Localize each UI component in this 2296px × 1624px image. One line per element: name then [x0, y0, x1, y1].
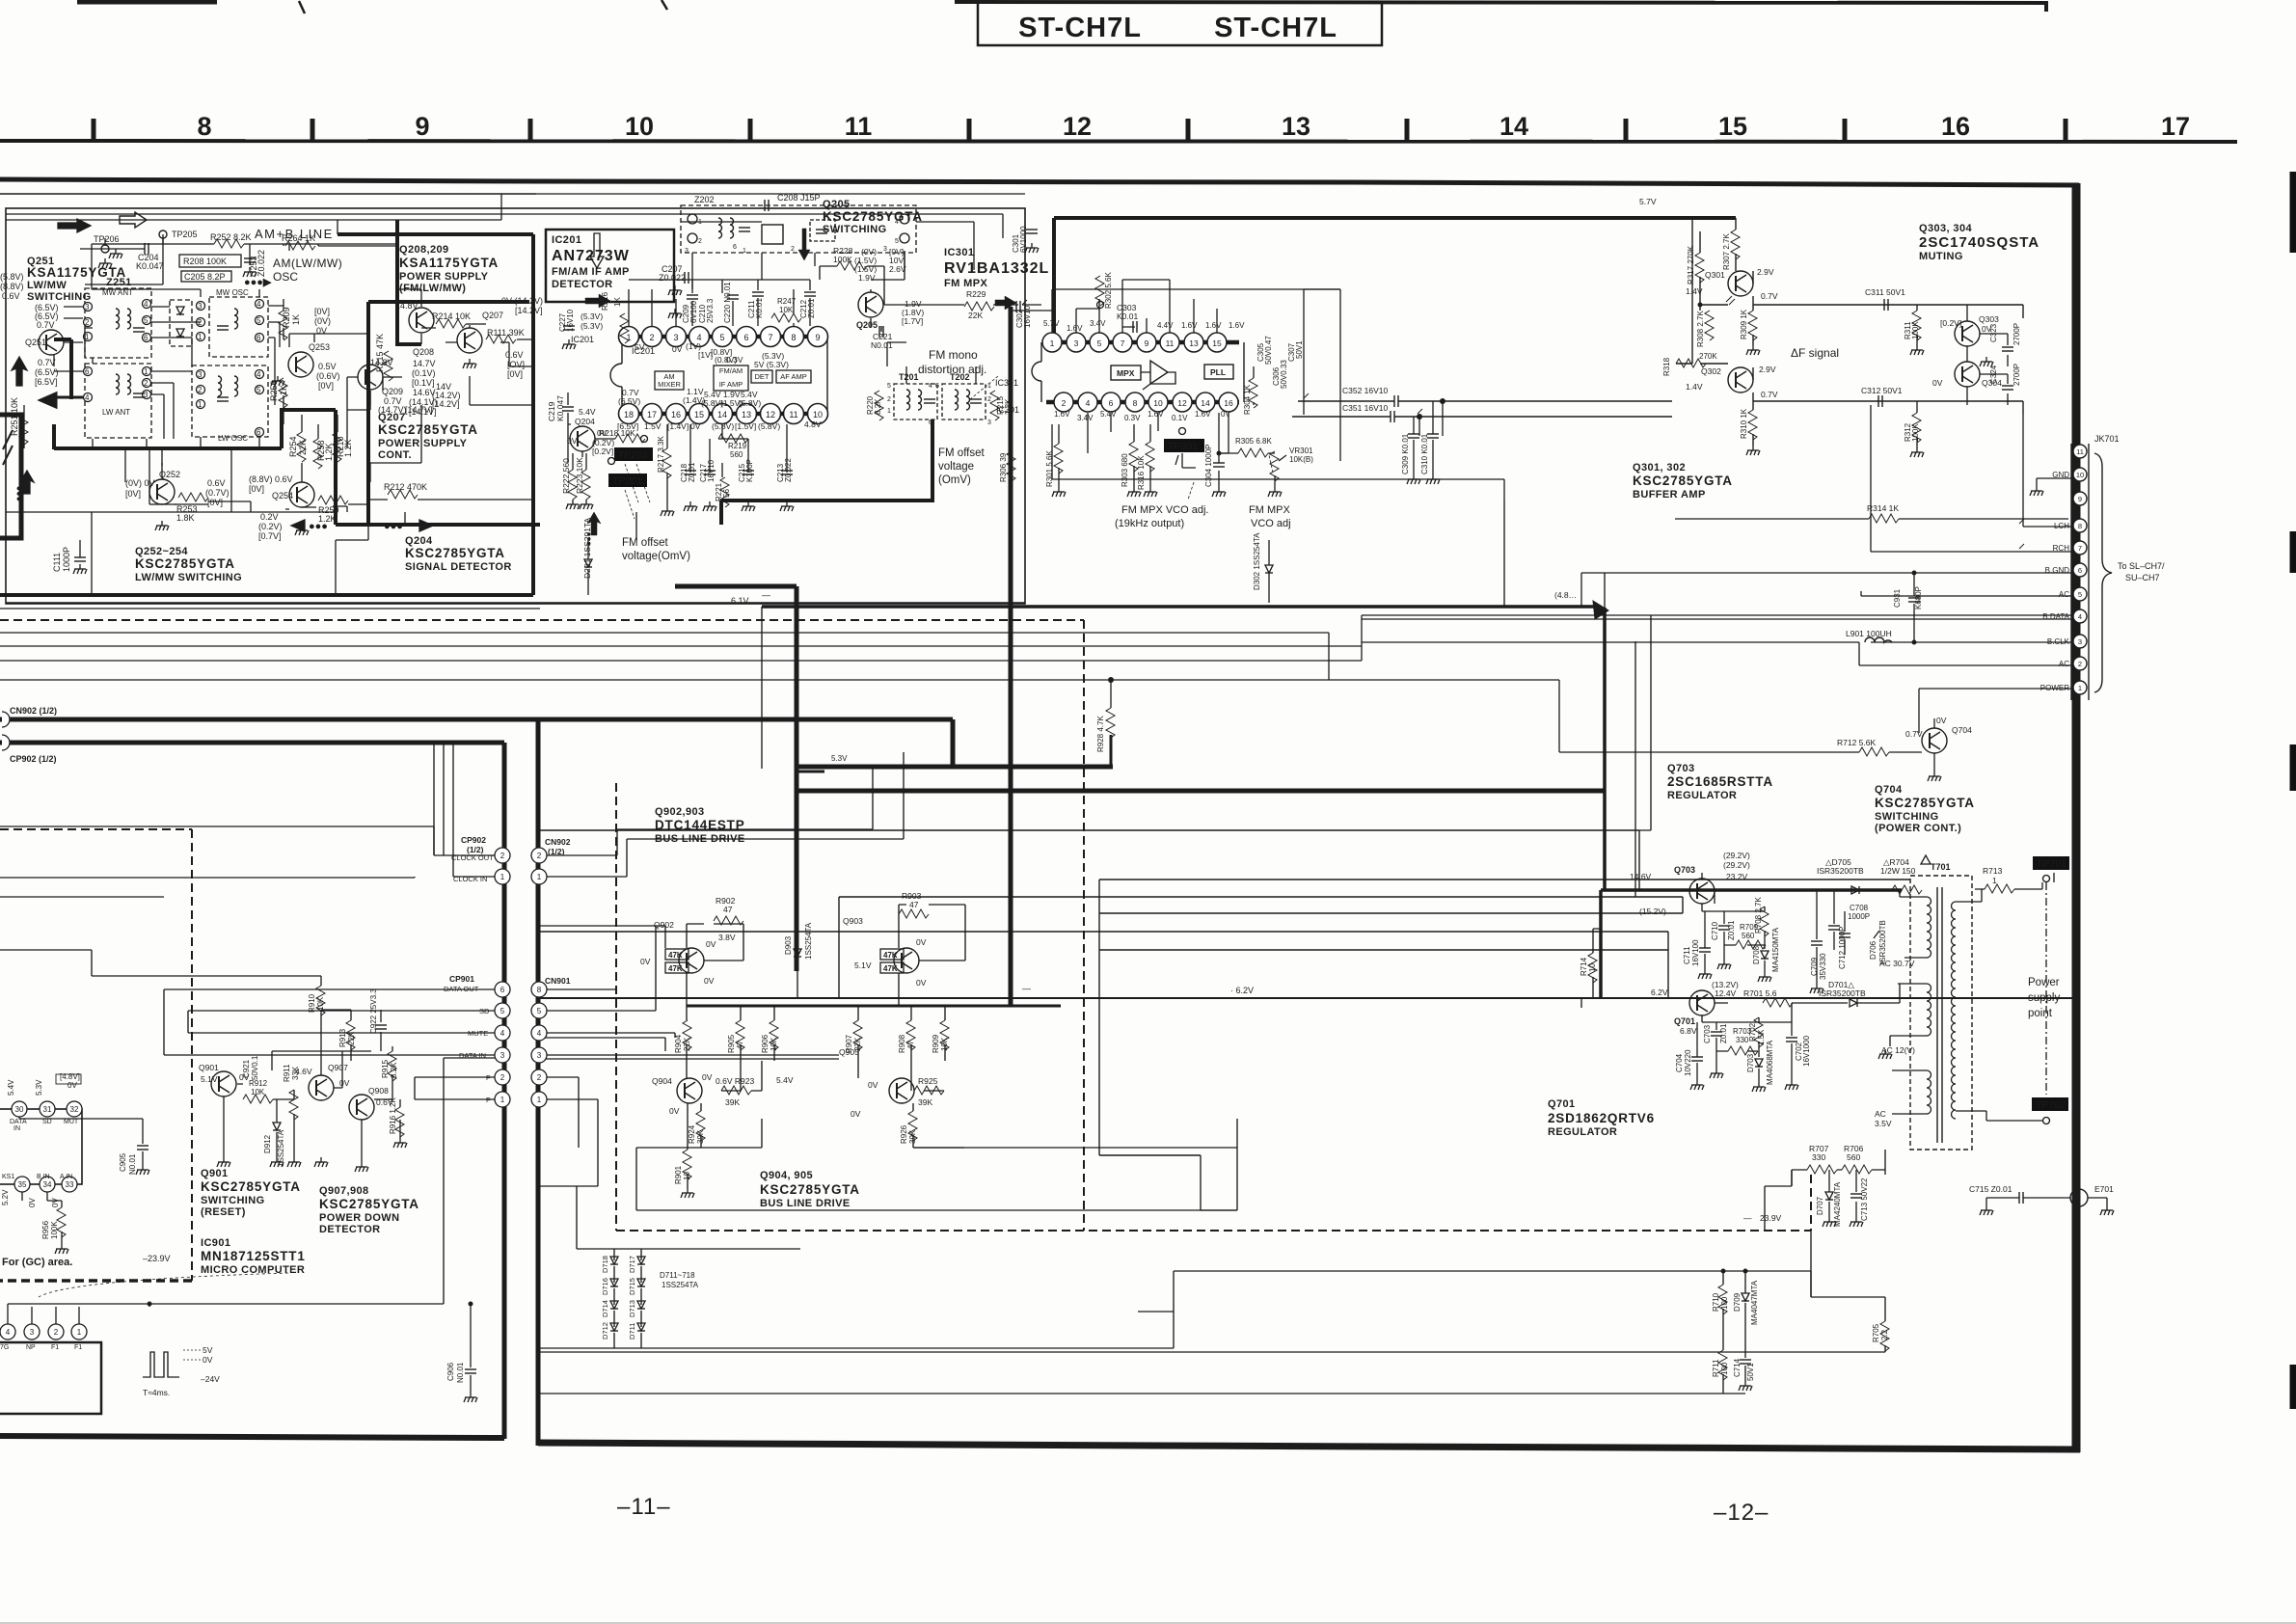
svg-text:—: — [762, 590, 770, 600]
svg-text:F1: F1 [74, 1344, 82, 1351]
resistor R925 [918, 1076, 938, 1107]
svg-text:R222 560: R222 560 [561, 458, 571, 494]
svg-text:7: 7 [1121, 338, 1125, 348]
svg-text:TP701: TP701 [2037, 858, 2066, 870]
svg-text:2SC1685RSTTA: 2SC1685RSTTA [1667, 774, 1773, 789]
svg-text:Q254: Q254 [272, 491, 293, 501]
svg-text:47K: 47K [883, 964, 898, 973]
svg-text:3: 3 [500, 1051, 505, 1060]
resistor R258 [313, 439, 322, 469]
svg-text:R305 6.8K: R305 6.8K [1235, 437, 1272, 446]
Z251 coils [116, 309, 120, 329]
svg-text:TP206: TP206 [94, 234, 120, 244]
svg-text:[4.8V]: [4.8V] [60, 1072, 80, 1081]
svg-text:6V100: 6V100 [689, 300, 698, 323]
below IC301 resistors [1054, 444, 1063, 474]
svg-text:4: 4 [1086, 398, 1091, 408]
label AM+B LINE [255, 227, 342, 284]
svg-text:(29.2V): (29.2V) [1723, 860, 1750, 870]
svg-text:R911: R911 [283, 1064, 291, 1082]
svg-text:C906: C906 [446, 1362, 455, 1381]
svg-text:10: 10 [625, 112, 654, 141]
svg-text:DATA: DATA [10, 1119, 27, 1125]
svg-text:0.3V: 0.3V [726, 355, 743, 365]
svg-text:POWER DOWN: POWER DOWN [319, 1212, 399, 1224]
resistor R902 [716, 896, 736, 914]
svg-text:2: 2 [698, 238, 702, 245]
capacitor C207 [659, 264, 686, 283]
svg-text:OSC: OSC [273, 270, 298, 284]
svg-text:0V (14.2V): 0V (14.2V) [501, 296, 543, 306]
svg-text:3: 3 [85, 303, 90, 311]
svg-text:Q209: Q209 [382, 387, 403, 396]
wires IC301 bottom to FM adj [1052, 413, 1504, 501]
IC301 body [1046, 342, 1239, 402]
bus drive wires [687, 1005, 1061, 1008]
svg-text:6: 6 [500, 986, 505, 994]
svg-text:D714: D714 [601, 1300, 609, 1317]
svg-text:R302 5.6K: R302 5.6K [1104, 272, 1113, 309]
svg-text:D717: D717 [628, 1256, 636, 1273]
TP202 badge [614, 447, 653, 461]
svg-text:CN901: CN901 [545, 976, 571, 986]
svg-text:4: 4 [500, 1029, 505, 1038]
svg-text:1: 1 [85, 333, 90, 341]
svg-text:IC301: IC301 [996, 405, 1019, 415]
svg-text:C111: C111 [52, 553, 62, 572]
svg-text:8: 8 [2078, 522, 2082, 530]
resistor R214 [436, 319, 466, 328]
svg-text:N0.01: N0.01 [128, 1153, 137, 1175]
svg-text:0V: 0V [704, 976, 715, 986]
resistor R256 [279, 378, 287, 408]
wire 5.3V rail thick [797, 771, 824, 773]
svg-text:R217 3.3K: R217 3.3K [657, 436, 665, 473]
svg-text:3: 3 [198, 370, 203, 379]
resistor R209 [279, 311, 287, 340]
svg-text:–11–: –11– [617, 1494, 671, 1520]
diode D912 [273, 1123, 281, 1130]
svg-text:IC301: IC301 [995, 378, 1018, 388]
label 4.8V [1554, 590, 1577, 600]
TP702 [2032, 1097, 2068, 1111]
svg-text:(5.8V): (5.8V) [739, 398, 761, 408]
svg-text:K0.01: K0.01 [1117, 311, 1138, 321]
svg-text:1: 1 [500, 1096, 505, 1104]
svg-text:5.2V: 5.2V [1, 1189, 10, 1205]
wires buffer [1676, 218, 1753, 446]
svg-text:LW OSC: LW OSC [218, 434, 248, 443]
long wires [0, 615, 1837, 752]
big arrows [798, 229, 810, 260]
svg-text:1.6V: 1.6V [1181, 321, 1198, 330]
svg-text:[0V]: [0V] [318, 381, 334, 391]
C309 C310 [1401, 433, 1429, 474]
transistor Q252 [149, 479, 175, 504]
svg-text:6: 6 [1109, 398, 1114, 408]
resistor R310 [1748, 410, 1757, 440]
svg-text:Q301, 302: Q301, 302 [1633, 462, 1686, 474]
svg-text:IC901: IC901 [201, 1237, 230, 1249]
svg-text:JK701: JK701 [2094, 434, 2120, 444]
svg-text:Q701: Q701 [1674, 1016, 1695, 1026]
svg-text:(6.5V): (6.5V) [618, 396, 640, 406]
svg-text:(6.5V): (6.5V) [35, 367, 59, 377]
svg-text:1/2W 150: 1/2W 150 [1880, 866, 1916, 876]
svg-text:8: 8 [791, 333, 796, 342]
svg-text:560: 560 [730, 450, 743, 459]
transistor Q209 [358, 365, 383, 390]
svg-text:C710: C710 [1711, 921, 1719, 940]
inductor L901 [1846, 629, 1892, 638]
IC301 pins [1042, 333, 1238, 412]
transistor Q254 [289, 482, 314, 507]
svg-text:1: 1 [1050, 338, 1055, 348]
wire [0, 193, 536, 195]
svg-text:Power: Power [2028, 977, 2060, 988]
svg-text:NP: NP [26, 1344, 36, 1351]
svg-text:50V1: 50V1 [1746, 1363, 1755, 1381]
svg-text:35V330: 35V330 [1819, 953, 1827, 980]
svg-text:10: 10 [2076, 471, 2084, 479]
svg-text:D709: D709 [1733, 1292, 1742, 1312]
svg-text:Q704: Q704 [1952, 725, 1972, 735]
resistor R210 [333, 432, 341, 462]
svg-text:16V1000: 16V1000 [1802, 1035, 1811, 1067]
svg-text:1.6V: 1.6V [1148, 410, 1164, 419]
svg-text:10: 10 [1153, 398, 1163, 408]
svg-text:34: 34 [43, 1180, 52, 1189]
svg-text:35: 35 [18, 1180, 27, 1189]
svg-text:Q901: Q901 [201, 1168, 229, 1179]
svg-text:50V1: 50V1 [1295, 340, 1304, 359]
svg-text:R915: R915 [381, 1059, 390, 1078]
svg-text:Z0.01: Z0.01 [1719, 1023, 1728, 1043]
svg-text:2: 2 [85, 318, 90, 327]
svg-text:47: 47 [909, 900, 919, 909]
svg-text:10: 10 [813, 410, 823, 420]
svg-text:R308 2.7K: R308 2.7K [1696, 311, 1705, 347]
svg-text:0.7V: 0.7V [38, 358, 56, 367]
svg-text:0.6V: 0.6V [2, 291, 20, 301]
svg-text:CP901: CP901 [449, 974, 474, 984]
svg-text:IC201: IC201 [552, 234, 581, 246]
svg-text:5.4V: 5.4V [579, 407, 596, 417]
svg-text:C921: C921 [242, 1059, 251, 1078]
svg-text:0.7V: 0.7V [1905, 729, 1923, 739]
svg-text:1K: 1K [279, 385, 288, 395]
wires power details [1581, 890, 1900, 1297]
svg-text:SWITCHING: SWITCHING [27, 291, 92, 303]
capacitor C323 C324 [1989, 323, 2021, 386]
svg-text:6.1V: 6.1V [731, 596, 749, 606]
svg-text:1.2K: 1.2K [318, 514, 337, 524]
svg-text:D912: D912 [263, 1134, 272, 1153]
svg-text:AM(LW/MW): AM(LW/MW) [273, 257, 342, 270]
svg-text:1: 1 [537, 873, 542, 881]
resistor R714 [1588, 953, 1597, 983]
label dF signal [1791, 346, 1839, 360]
svg-text:R256: R256 [269, 380, 279, 401]
svg-text:1: 1 [743, 248, 746, 255]
resistor R229 [964, 302, 994, 311]
svg-text:31: 31 [43, 1105, 52, 1114]
extra stepped wires right of CN column [617, 752, 904, 839]
resistor R252 [214, 239, 244, 248]
svg-text:R901: R901 [674, 1165, 683, 1184]
svg-text:R212 470K: R212 470K [384, 482, 427, 492]
svg-text:T201: T201 [899, 372, 919, 382]
transistor Q208 [409, 308, 434, 333]
top edge partial line [955, 2, 2048, 3]
svg-text:2: 2 [2078, 660, 2082, 668]
svg-text:10K: 10K [251, 1088, 265, 1096]
wires top bus [6, 194, 1025, 238]
labels CN902/CP902 left edge [10, 706, 57, 764]
svg-text:KSC2785YGTA: KSC2785YGTA [405, 546, 505, 560]
svg-text:1: 1 [198, 333, 203, 341]
svg-text:R306 39: R306 39 [999, 452, 1008, 482]
resistor R312 [1912, 413, 1921, 443]
svg-text:1: 1 [77, 1328, 82, 1337]
R707 R706 [1809, 1144, 1864, 1162]
svg-text:SWITCHING: SWITCHING [201, 1195, 265, 1206]
D706 C708 C709 C712 [1810, 904, 1887, 980]
svg-text:(5.3V): (5.3V) [581, 321, 603, 331]
svg-text:1.2K: 1.2K [324, 443, 334, 461]
svg-text:13: 13 [1189, 338, 1199, 348]
svg-text:3.4V: 3.4V [1090, 319, 1106, 328]
svg-text:6.8V: 6.8V [1680, 1026, 1697, 1036]
open arrow on wire [120, 212, 147, 228]
transformers T201 T202 [894, 384, 986, 420]
svg-text:DTC144ESTP: DTC144ESTP [655, 818, 745, 832]
svg-text:0.7V: 0.7V [1761, 291, 1778, 301]
svg-text:FM MPX VCO adj.: FM MPX VCO adj. [1121, 504, 1208, 516]
svg-text:R316 10K: R316 10K [1137, 455, 1146, 490]
svg-text:47: 47 [723, 905, 733, 914]
svg-text:C931: C931 [1893, 588, 1902, 608]
svg-text:4: 4 [2078, 612, 2082, 621]
svg-text:1SS254TA: 1SS254TA [662, 1281, 699, 1289]
svg-text:4.8V: 4.8V [804, 420, 822, 429]
svg-text:14.7V: 14.7V [413, 359, 436, 368]
svg-text:1: 1 [144, 367, 149, 376]
svg-text:(0.1V): (0.1V) [412, 368, 436, 378]
wires Z251 to Q251 [54, 307, 83, 371]
svg-text:C703: C703 [1703, 1024, 1712, 1043]
transistor Q704 [1922, 728, 1947, 753]
C305 C306 C307 [1256, 336, 1304, 389]
capacitor C311 [1865, 287, 1905, 297]
resistor R314 [1867, 503, 1899, 513]
svg-text:R913: R913 [338, 1028, 347, 1047]
svg-text:23.2V: 23.2V [1726, 872, 1748, 881]
transistor Q303 [1955, 321, 1980, 346]
label Q907,908 group [319, 1185, 419, 1235]
svg-text:(8.8V): (8.8V) [0, 282, 24, 291]
svg-text:5: 5 [257, 316, 261, 325]
svg-text:T≈4ms.: T≈4ms. [143, 1388, 170, 1397]
svg-text:Q204: Q204 [575, 417, 595, 426]
svg-text:ST-CH7L: ST-CH7L [1018, 13, 1142, 43]
label For GC area [2, 1254, 171, 1268]
svg-text:D302 1SS254TA: D302 1SS254TA [1253, 532, 1261, 590]
R302 C301 [1095, 276, 1104, 306]
svg-text:2: 2 [144, 379, 149, 388]
svg-text:100K: 100K [1911, 321, 1920, 339]
svg-text:●●●▶: ●●●▶ [244, 277, 272, 288]
caps inside Z251 [133, 328, 145, 332]
svg-text:D711~718: D711~718 [660, 1271, 695, 1280]
svg-text:14.8V: 14.8V [395, 301, 419, 311]
svg-text:1: 1 [2078, 684, 2082, 692]
svg-text:1SS254TA: 1SS254TA [277, 1129, 285, 1167]
right page-edge crop marks [2290, 172, 2296, 1409]
C703 cluster [1675, 1022, 1811, 1085]
svg-text:(POWER CONT.): (POWER CONT.) [1875, 823, 1961, 834]
label Q901 group [201, 1168, 301, 1218]
svg-text:1.6V: 1.6V [1205, 321, 1222, 330]
svg-text:MPX: MPX [1117, 368, 1135, 378]
resistor R228 [837, 261, 867, 270]
svg-text:Z202: Z202 [694, 195, 715, 204]
svg-text:18: 18 [624, 410, 634, 420]
svg-text:AC: AC [1875, 1109, 1886, 1119]
label IC301 [944, 247, 1049, 289]
svg-text:[0.2V]: [0.2V] [592, 447, 613, 456]
svg-text:IC301: IC301 [944, 247, 974, 258]
diode D903 [794, 949, 801, 957]
svg-text:TP205: TP205 [172, 230, 198, 239]
svg-text:MA4047MTA: MA4047MTA [1750, 1280, 1759, 1325]
svg-text:13: 13 [742, 410, 751, 420]
wire thick meander [54, 339, 540, 525]
svg-text:47K: 47K [883, 951, 898, 960]
svg-text:17: 17 [647, 410, 657, 420]
svg-text:R712 5.6K: R712 5.6K [1837, 738, 1876, 747]
svg-text:6: 6 [2078, 566, 2082, 575]
svg-text:(0.7V): (0.7V) [205, 488, 230, 498]
svg-text:E701: E701 [2094, 1184, 2114, 1194]
svg-text:47K: 47K [668, 951, 683, 960]
svg-text:[0V]: [0V] [207, 498, 223, 507]
svg-text:4: 4 [257, 370, 261, 379]
svg-text:●●●: ●●● [384, 521, 403, 532]
svg-text:1: 1 [198, 400, 203, 409]
svg-text:5.7V: 5.7V [1639, 197, 1657, 206]
svg-text:[0.1V]: [0.1V] [412, 378, 435, 388]
svg-text:5: 5 [719, 333, 724, 342]
svg-text:Z0.01: Z0.01 [688, 462, 696, 482]
svg-text:330: 330 [1812, 1152, 1825, 1162]
resistor R309 [1748, 311, 1757, 340]
svg-text:50V0.33: 50V0.33 [1280, 360, 1288, 389]
svg-text:6.2V: 6.2V [1651, 988, 1668, 997]
svg-text:1: 1 [537, 1096, 542, 1104]
svg-text:0V: 0V [916, 978, 927, 988]
R928 [1110, 735, 1113, 767]
svg-text:23.9V: 23.9V [1760, 1213, 1782, 1223]
wires tuner mesh [85, 244, 289, 512]
svg-text:6: 6 [257, 428, 261, 437]
svg-text:VCO adj: VCO adj [1251, 518, 1291, 529]
resistor R306 [1007, 451, 1015, 481]
IC901 box [0, 1109, 82, 1184]
transistor Q901 [211, 1071, 236, 1096]
svg-text:SD: SD [42, 1119, 52, 1125]
svg-text:KSC2785YGTA: KSC2785YGTA [760, 1182, 860, 1197]
svg-text:Z0.022: Z0.022 [784, 458, 793, 482]
svg-text:KSC2785YGTA: KSC2785YGTA [319, 1197, 419, 1211]
svg-text:7: 7 [2078, 544, 2082, 553]
svg-text:Q902,903: Q902,903 [655, 806, 705, 818]
svg-text:4.4V: 4.4V [1157, 321, 1174, 330]
svg-text:1K: 1K [613, 297, 622, 307]
svg-text:9: 9 [415, 112, 429, 141]
label IC901 group [201, 1237, 306, 1276]
svg-text:560: 560 [1847, 1152, 1860, 1162]
svg-text:●●●: ●●● [14, 486, 23, 501]
svg-text:Q907,908: Q907,908 [319, 1185, 369, 1197]
svg-text:12: 12 [1177, 398, 1187, 408]
wire bundle to power [538, 830, 1910, 1155]
svg-text:5.4V: 5.4V [1100, 410, 1117, 419]
resistors R924 R926 R901 [696, 1111, 705, 1141]
svg-text:ISR35200TB: ISR35200TB [1819, 988, 1866, 998]
TP205 [159, 230, 167, 238]
svg-text:5.1V: 5.1V [854, 961, 872, 970]
label Q251 group [0, 256, 126, 387]
svg-text:2: 2 [887, 396, 891, 403]
svg-text:9: 9 [2078, 495, 2082, 503]
D705 R704 [1817, 857, 1916, 876]
svg-text:R908: R908 [898, 1034, 906, 1053]
svg-text:ST-CH7L: ST-CH7L [1214, 13, 1337, 43]
svg-text:R909: R909 [932, 1034, 940, 1053]
svg-text:2: 2 [500, 1073, 505, 1082]
svg-text:C714: C714 [1733, 1358, 1742, 1377]
svg-text:TP201: TP201 [612, 475, 642, 487]
svg-text:KSC2785YGTA: KSC2785YGTA [1875, 796, 1975, 810]
svg-text:5.4V: 5.4V [7, 1079, 15, 1096]
svg-text:2700P: 2700P [2012, 323, 2021, 345]
svg-text:MA4150MTA: MA4150MTA [1771, 927, 1780, 972]
svg-text:(0.6V): (0.6V) [316, 371, 340, 381]
svg-text:MUT: MUT [64, 1119, 79, 1125]
svg-text:R924: R924 [688, 1124, 696, 1144]
svg-text:22K: 22K [968, 311, 983, 320]
svg-text:11: 11 [845, 112, 873, 141]
Z251 pins [84, 300, 264, 438]
svg-text:1K: 1K [291, 314, 301, 325]
svg-text:0V: 0V [1221, 410, 1230, 419]
wire thick bus [675, 307, 1605, 1006]
svg-text:VR301: VR301 [1289, 447, 1313, 455]
svg-text:0V: 0V [669, 1106, 680, 1116]
svg-text:MA4068MTA: MA4068MTA [1766, 1040, 1774, 1085]
svg-text:8: 8 [197, 112, 211, 141]
label FM offset right [938, 447, 986, 486]
svg-text:AF AMP: AF AMP [780, 372, 807, 381]
svg-text:Z0.01: Z0.01 [807, 298, 816, 318]
svg-text:DETECTOR: DETECTOR [319, 1224, 381, 1235]
svg-text:12: 12 [1063, 112, 1092, 141]
transistor Q304 [1955, 362, 1980, 387]
svg-text:B IN: B IN [37, 1174, 50, 1180]
svg-text:14: 14 [1201, 398, 1210, 408]
svg-text:Q703: Q703 [1674, 865, 1695, 875]
